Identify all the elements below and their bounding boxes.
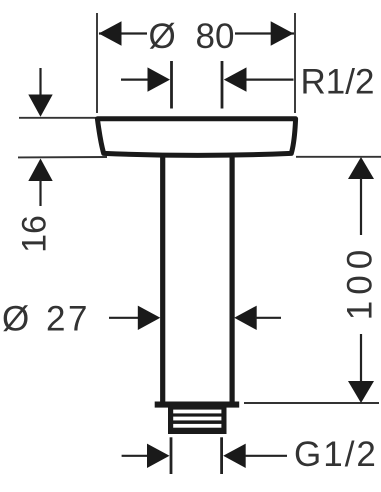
svg-text:Ø: Ø bbox=[149, 17, 176, 56]
wire: right extension line at escutcheon bottom bbox=[296, 156, 381, 158]
dimension Ø80 line left segment with arrow bbox=[99, 21, 147, 45]
svg-text:80: 80 bbox=[196, 17, 235, 56]
wire: G1/2 left tick bar bbox=[170, 437, 173, 474]
svg-text:16: 16 bbox=[16, 215, 54, 253]
wire: ceiling line left bbox=[19, 117, 96, 119]
dimension G1/2 right arrow bbox=[223, 444, 287, 468]
svg-text:Ø: Ø bbox=[2, 300, 29, 339]
dimension Ø27 left arrow bbox=[109, 306, 160, 330]
svg-text:27: 27 bbox=[46, 300, 90, 339]
pipe bottom flange bar bbox=[155, 402, 240, 408]
pipe left wall bbox=[160, 150, 165, 404]
wire: R1/2 right tick bar bbox=[221, 61, 224, 109]
dimension 16 top arrow (down) bbox=[28, 68, 52, 117]
thread white groove 2 bbox=[173, 417, 221, 421]
wire: extension line at pipe end right bbox=[244, 402, 379, 404]
dimension R1/2 right arrow bbox=[224, 67, 294, 91]
thread white groove 1 bbox=[173, 410, 221, 414]
dimension R1/2 left arrow bbox=[121, 67, 170, 91]
thread white groove 3 bbox=[173, 424, 221, 428]
dimension G1/2 left arrow bbox=[122, 444, 170, 468]
wire: extension line right of Ø80 bbox=[294, 13, 296, 113]
svg-text:G1/2: G1/2 bbox=[294, 435, 378, 474]
dimension 100 bottom arrow (down) bbox=[348, 334, 374, 403]
escutcheon (ceiling plate) bbox=[97, 119, 295, 156]
dimension 100 top arrow (up) bbox=[348, 157, 374, 235]
wire: escutcheon bottom extension line left bbox=[18, 156, 107, 158]
dimension 16 bottom arrow (up) bbox=[28, 159, 52, 207]
wire: R1/2 left tick bar bbox=[170, 61, 173, 109]
svg-text:100: 100 bbox=[341, 244, 380, 320]
dimension Ø27 right arrow bbox=[234, 306, 281, 330]
wire: G1/2 right tick bar bbox=[220, 437, 223, 474]
thread G1/2 block bbox=[168, 404, 227, 434]
wire: extension line left of Ø80 bbox=[96, 13, 98, 113]
pipe right wall bbox=[230, 150, 235, 404]
dimension Ø80 line right segment with arrow bbox=[235, 21, 294, 45]
svg-text:R1/2: R1/2 bbox=[301, 63, 375, 102]
